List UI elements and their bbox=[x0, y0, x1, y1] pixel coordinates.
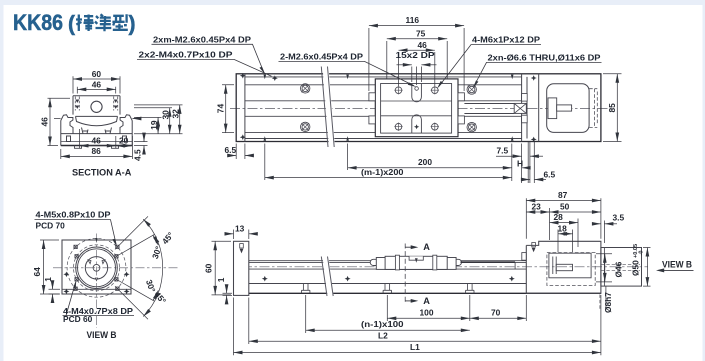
left end plate bbox=[234, 241, 249, 295]
top notch with grease arrow bbox=[409, 256, 423, 260]
svg-text:18: 18 bbox=[558, 223, 568, 233]
seal seam tabs bbox=[395, 255, 436, 270]
dim 60 top bbox=[73, 76, 120, 93]
svg-text:6.5: 6.5 bbox=[544, 169, 556, 179]
leader 2xm-M2.6 bbox=[152, 44, 264, 71]
housing screw diamonds bbox=[531, 75, 537, 142]
svg-text:1: 1 bbox=[43, 277, 53, 282]
dim 100 bbox=[387, 295, 470, 321]
leader 2x2-M4 bbox=[137, 59, 272, 76]
svg-text:-0: -0 bbox=[639, 251, 645, 256]
svg-text:74: 74 bbox=[215, 104, 225, 114]
dim 116 bbox=[369, 26, 464, 91]
break lines top view bbox=[323, 67, 336, 148]
housing hidden dashed outline bbox=[547, 253, 595, 286]
svg-text:100: 100 bbox=[420, 308, 434, 318]
carriage side profile bbox=[370, 256, 461, 269]
dim 28 bbox=[550, 219, 579, 248]
svg-text:60: 60 bbox=[92, 69, 102, 79]
svg-text:PCD 70: PCD 70 bbox=[36, 221, 66, 231]
svg-text:85: 85 bbox=[607, 103, 617, 113]
section A cut line bbox=[404, 244, 406, 304]
left end cap line bbox=[244, 74, 246, 142]
motor body plan bbox=[547, 84, 589, 133]
base bottom feet bbox=[75, 146, 119, 149]
svg-text:(: ( bbox=[68, 13, 75, 36]
carriage block plan bbox=[375, 79, 458, 137]
VIEW B arrow bbox=[659, 269, 694, 271]
svg-text:4-M6x1Px12 DP: 4-M6x1Px12 DP bbox=[472, 35, 540, 45]
dim (n-1)x100 bbox=[306, 295, 470, 333]
rail long inner lines bbox=[245, 77, 522, 139]
svg-text:13: 13 bbox=[235, 223, 245, 233]
base bottom side thick bbox=[249, 292, 601, 294]
dim (m-1)x200 bbox=[265, 144, 512, 181]
svg-text:15x2 DP: 15x2 DP bbox=[396, 50, 435, 60]
leader 2xn-Ø6.6 bbox=[474, 62, 602, 86]
svg-text:75: 75 bbox=[416, 28, 426, 38]
rail base right wall bbox=[120, 115, 132, 134]
svg-text:70: 70 bbox=[491, 308, 501, 318]
rail side long lines bbox=[249, 261, 527, 284]
carriage lower body arc (nut housing) bbox=[76, 116, 118, 125]
svg-text:(m-1)x200: (m-1)x200 bbox=[361, 167, 404, 177]
M5 screws PCD70 at 45deg bbox=[74, 245, 119, 290]
carriage legs bbox=[82, 128, 112, 134]
boss hidden shaft lines bbox=[601, 264, 640, 270]
M4 screw holes dashed (left) bbox=[75, 97, 117, 111]
dim 70 bbox=[470, 295, 527, 321]
bearing housing tabs bbox=[522, 94, 528, 102]
svg-text:116: 116 bbox=[406, 15, 420, 25]
base slab inner pockets bbox=[67, 136, 127, 142]
svg-text:L1: L1 bbox=[410, 342, 420, 352]
rail mount holes (crosshair) left pair bbox=[301, 84, 477, 132]
base bottom line bbox=[61, 141, 132, 143]
coupling X box bbox=[514, 103, 526, 113]
side diamonds bbox=[262, 276, 515, 282]
svg-text:PCD 60: PCD 60 bbox=[63, 314, 93, 324]
svg-text:60: 60 bbox=[204, 263, 214, 273]
dim 6.5 bottom left bbox=[228, 144, 253, 160]
leader 4-M5 bbox=[35, 220, 117, 245]
svg-text:19: 19 bbox=[149, 120, 159, 130]
shaft keyway notches bbox=[88, 260, 105, 281]
svg-text:46: 46 bbox=[40, 117, 50, 127]
svg-text:6.5: 6.5 bbox=[225, 145, 237, 155]
flange square bbox=[62, 240, 131, 294]
dim 1 side bbox=[223, 285, 233, 304]
svg-text:46: 46 bbox=[418, 40, 428, 50]
CJK glyph 標 (stylized) bbox=[76, 15, 94, 32]
dims 7.5 H 6.5 right bbox=[496, 142, 546, 184]
svg-text:64: 64 bbox=[32, 267, 42, 277]
dim 18 bbox=[558, 230, 573, 253]
svg-text:87: 87 bbox=[558, 190, 568, 200]
base bottom edge thick bbox=[61, 145, 132, 147]
svg-text:SECTION A-A: SECTION A-A bbox=[72, 167, 132, 177]
svg-text:Ø50: Ø50 bbox=[631, 260, 641, 276]
rail outer boundary bbox=[236, 74, 601, 142]
rail base left wall bbox=[61, 115, 73, 134]
svg-text:4-M5x0.8Px10 DP: 4-M5x0.8Px10 DP bbox=[36, 210, 111, 220]
base bottom line through flange bbox=[62, 288, 131, 290]
top edge tick bbox=[95, 238, 97, 242]
ballscrew shaft to bearing bbox=[464, 104, 514, 114]
dim 3.5 bbox=[592, 221, 617, 244]
screw cover strip (dark) bbox=[461, 261, 516, 263]
dim 46 carriage bbox=[399, 50, 435, 86]
break lines side view bbox=[323, 257, 334, 297]
svg-text:20: 20 bbox=[119, 136, 129, 146]
svg-text:86: 86 bbox=[92, 146, 102, 156]
svg-text:VIEW B: VIEW B bbox=[87, 330, 117, 340]
title KK86 bbox=[13, 10, 136, 36]
end plate screw symbol bbox=[240, 244, 244, 248]
housing stop tab bbox=[522, 253, 526, 261]
dim 64 left bbox=[40, 240, 59, 294]
end cap screw diamonds bbox=[240, 73, 278, 140]
svg-text:KK86: KK86 bbox=[13, 10, 63, 35]
gearbox housing side bbox=[526, 241, 601, 293]
svg-text:1: 1 bbox=[216, 277, 226, 282]
housing screw symbol bbox=[532, 243, 536, 247]
svg-text:2-M2.6x0.45Px4 DP: 2-M2.6x0.45Px4 DP bbox=[280, 51, 363, 61]
dim 4.5 right bottom bbox=[134, 134, 148, 153]
dim 15x2 DP bbox=[397, 65, 437, 85]
CJK glyph 準 bbox=[95, 14, 111, 31]
dim 86 bbox=[61, 149, 133, 159]
shaft circles bbox=[85, 257, 107, 279]
side datum arrows at wall tops bbox=[54, 118, 139, 120]
svg-text:2x2-M4x0.7Px10 DP: 2x2-M4x0.7Px10 DP bbox=[139, 49, 233, 59]
dim 87 bbox=[526, 198, 601, 239]
M4 screws PCD60 at 30deg bbox=[75, 255, 118, 281]
carriage M6 screw holes bbox=[395, 87, 438, 130]
side center line bbox=[242, 266, 648, 268]
dim 46 top bbox=[77, 87, 115, 94]
carriage center slots bbox=[412, 84, 422, 102]
svg-text:4.5: 4.5 bbox=[133, 149, 143, 161]
svg-text:H: H bbox=[517, 158, 523, 168]
dim L2 bbox=[249, 298, 601, 345]
housing pocket bbox=[549, 253, 591, 278]
CJK glyph 型 bbox=[112, 14, 127, 29]
ballscrew circle bbox=[91, 101, 102, 112]
svg-text:200: 200 bbox=[418, 157, 432, 167]
dim 200 bbox=[348, 144, 512, 182]
dim Ø50 bbox=[643, 248, 651, 287]
dims 23 50 bbox=[526, 208, 601, 240]
M2.6 hole in top slot bbox=[415, 87, 419, 91]
bearing housing verticals bbox=[522, 74, 539, 142]
svg-text:L2: L2 bbox=[378, 331, 388, 341]
svg-text:3.5: 3.5 bbox=[613, 212, 625, 222]
dim 1 view B bbox=[49, 282, 61, 302]
leader 4-M4 bbox=[63, 283, 135, 316]
dim 75 bbox=[387, 39, 447, 79]
svg-text:23: 23 bbox=[532, 202, 542, 212]
bottom slot diamond bbox=[414, 124, 419, 129]
svg-text:32: 32 bbox=[171, 109, 181, 119]
dim Ø46 bbox=[596, 254, 612, 282]
base outer sides bbox=[61, 121, 132, 146]
angle radial lines bbox=[115, 216, 154, 319]
counterbore holes (side) bbox=[302, 284, 475, 294]
center lines bbox=[53, 267, 178, 269]
angle arcs bbox=[143, 219, 162, 268]
dim L1 bbox=[234, 295, 601, 355]
svg-text:A: A bbox=[423, 296, 430, 306]
svg-text:2xn-Ø6.6 THRU,Ø11x6 DP: 2xn-Ø6.6 THRU,Ø11x6 DP bbox=[488, 52, 601, 62]
svg-text:Ø46: Ø46 bbox=[614, 261, 624, 277]
PCD dashed circles bbox=[67, 238, 126, 297]
svg-text:(n-1)x100: (n-1)x100 bbox=[361, 319, 404, 329]
center line top view bbox=[230, 108, 612, 110]
svg-text:46: 46 bbox=[92, 136, 102, 146]
svg-text:2xm-M2.6x0.45Px4 DP: 2xm-M2.6x0.45Px4 DP bbox=[153, 34, 251, 44]
svg-text:Ø8h7: Ø8h7 bbox=[603, 292, 613, 313]
svg-text:7.5: 7.5 bbox=[497, 145, 509, 155]
leader 2-M2.6 bbox=[279, 61, 414, 85]
motor hidden lines bbox=[589, 89, 597, 128]
dim 74 left bbox=[222, 85, 234, 133]
svg-text:50: 50 bbox=[560, 202, 570, 212]
pilot circles bbox=[76, 247, 118, 289]
dim 85 right bbox=[603, 74, 622, 142]
output boss cylinder bbox=[601, 248, 642, 287]
dim 46 bottom bbox=[80, 129, 133, 159]
carriage side grease tabs bbox=[369, 93, 465, 124]
leader 4-M6 bbox=[439, 45, 541, 87]
svg-text:VIEW B: VIEW B bbox=[662, 259, 692, 269]
svg-text:A: A bbox=[423, 242, 430, 252]
base slab top line bbox=[61, 133, 132, 135]
svg-text:28: 28 bbox=[554, 212, 564, 222]
svg-text:): ) bbox=[129, 13, 136, 36]
dim 13 bbox=[226, 230, 257, 240]
dim 46 left vertical bbox=[48, 98, 71, 145]
hole position ticks on edges bbox=[264, 75, 514, 141]
dims 19 30 32 right stack bbox=[134, 105, 183, 134]
svg-text:46: 46 bbox=[92, 80, 102, 90]
dim 60 side bbox=[212, 241, 232, 295]
carriage plate section bbox=[73, 96, 120, 115]
svg-text:30: 30 bbox=[160, 110, 170, 120]
housing diamonds view B bbox=[63, 272, 129, 295]
plate bottom edge line bbox=[76, 115, 118, 117]
